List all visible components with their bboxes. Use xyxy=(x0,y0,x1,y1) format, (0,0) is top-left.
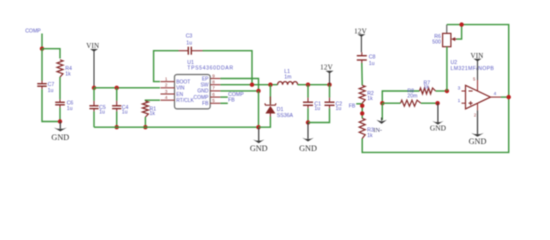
svg-text:VIN: VIN xyxy=(176,86,185,92)
svg-text:TPS54360DDAR: TPS54360DDAR xyxy=(187,66,233,72)
capacitor C2 1u xyxy=(329,98,331,103)
wire R1 top from RT/CLK pin xyxy=(145,99,160,102)
junction C4 bottom xyxy=(115,125,119,129)
svg-text:1: 1 xyxy=(458,98,461,104)
wire middle bottom rail xyxy=(94,126,259,128)
capacitor C4 1u xyxy=(116,101,118,106)
wire C4 top stub xyxy=(116,88,118,101)
svg-text:1k: 1k xyxy=(150,111,156,117)
junction C7/C6/GND xyxy=(58,119,62,123)
junction EP/GND xyxy=(256,89,260,93)
svg-text:SS36A: SS36A xyxy=(277,113,294,119)
wire R8 to op-amp pin 1 xyxy=(421,102,438,104)
svg-text:GND: GND xyxy=(51,133,69,142)
wire BOOT to C3 left xyxy=(154,51,179,82)
svg-text:GND: GND xyxy=(250,144,268,153)
svg-text:BOOT: BOOT xyxy=(176,79,190,85)
junction R7/R6 xyxy=(445,89,449,93)
svg-text:1u: 1u xyxy=(186,41,192,47)
resistor R3 1k xyxy=(359,118,365,138)
junction VIN/C5/rail xyxy=(92,86,96,90)
wire FB stub at pin 5 xyxy=(220,102,227,104)
svg-text:GND: GND xyxy=(469,137,487,146)
wire COMP stub at pin 6 xyxy=(220,96,227,98)
wire C6 to GND junction xyxy=(59,108,61,122)
svg-text:C8: C8 xyxy=(369,54,376,60)
junction R1 bottom xyxy=(143,125,147,129)
svg-text:500: 500 xyxy=(432,39,441,45)
pin 3 EN of U1 xyxy=(161,93,175,95)
svg-text:1k: 1k xyxy=(424,85,430,91)
junction bottom rail / GND xyxy=(256,125,260,129)
svg-text:COMP: COMP xyxy=(25,28,41,34)
wire R7 to op-amp pin 3 xyxy=(436,90,447,92)
wire R8 row left xyxy=(382,102,400,104)
svg-text:1u: 1u xyxy=(99,110,105,116)
ground GND (output) xyxy=(307,123,309,139)
wire EP to corner xyxy=(220,79,258,91)
wire C4 to bottom rail xyxy=(116,111,118,127)
pin 8 SW of U1 xyxy=(210,84,220,86)
potentiometer R6 500 xyxy=(446,25,448,34)
wire C3 right to SW node xyxy=(203,51,253,85)
ground GND (left block) xyxy=(59,122,61,129)
wire R1 to bottom rail xyxy=(144,117,146,127)
svg-text:IN-: IN- xyxy=(373,127,382,134)
wire GND pin to junction xyxy=(220,90,258,92)
svg-text:20m: 20m xyxy=(407,93,417,99)
op-amp U2 LM321MF/NOPB xyxy=(462,90,466,92)
junction C1/C2 bottom xyxy=(306,120,310,124)
svg-text:1k: 1k xyxy=(367,133,373,139)
svg-text:RT/CLK: RT/CLK xyxy=(176,98,194,104)
svg-text:3: 3 xyxy=(458,85,461,91)
wire R6 bottom to inverting node xyxy=(446,47,448,91)
pin 6 COMP of U1 xyxy=(210,96,220,98)
junction C2/12V xyxy=(327,83,331,87)
svg-text:12V: 12V xyxy=(320,63,333,71)
junction IN- / R8 xyxy=(380,101,384,105)
svg-text:C3: C3 xyxy=(186,34,193,40)
svg-text:EP: EP xyxy=(202,76,209,82)
junction output node xyxy=(507,95,511,99)
svg-text:1: 1 xyxy=(165,76,168,81)
junction SW/C3 xyxy=(250,83,254,87)
wire R6 top rail xyxy=(447,25,509,98)
svg-text:FB: FB xyxy=(349,103,356,109)
wire C1 top stub xyxy=(307,85,309,98)
inductor L1 1m xyxy=(278,82,298,85)
wire C8 to R2 xyxy=(361,63,363,85)
wire SW pin to L1 xyxy=(220,84,277,86)
svg-text:2: 2 xyxy=(165,83,168,88)
svg-text:4: 4 xyxy=(494,91,497,97)
resistor R8 20m xyxy=(401,100,421,106)
wire down to bottom rail xyxy=(258,91,260,127)
junction FB lower xyxy=(360,111,364,115)
svg-text:GND: GND xyxy=(197,89,209,95)
wire D1 cathode stub xyxy=(269,85,271,105)
capacitor C6 1u xyxy=(59,99,61,102)
resistor R2 1k xyxy=(359,85,365,103)
pin 9 EP of U1 xyxy=(210,78,220,80)
wire D1 anode to ground rail xyxy=(259,117,271,128)
svg-text:12V: 12V xyxy=(354,27,367,35)
svg-text:1u: 1u xyxy=(48,88,54,94)
wire COMP net down xyxy=(41,34,43,49)
resistor R7 1k xyxy=(420,88,436,94)
junction SW/D1 xyxy=(268,83,272,87)
pin 5 FB of U1 xyxy=(210,102,220,104)
svg-text:1u: 1u xyxy=(314,106,320,112)
wire C1 to GND junction xyxy=(307,108,309,122)
wire R3 to bottom return rail xyxy=(362,97,509,152)
resistor R1 1k xyxy=(142,101,148,117)
junction COMP/C7/R4 xyxy=(40,47,44,51)
svg-text:7: 7 xyxy=(212,86,215,91)
capacitor C3 1u (boot) xyxy=(179,50,189,52)
svg-text:LM321MF/NOPB: LM321MF/NOPB xyxy=(451,66,495,72)
svg-text:1k: 1k xyxy=(367,96,373,102)
svg-text:1u: 1u xyxy=(67,106,73,112)
svg-text:9: 9 xyxy=(212,73,215,78)
ground GND (under U1) xyxy=(258,127,260,140)
svg-text:FB: FB xyxy=(228,98,235,104)
svg-text:6: 6 xyxy=(212,92,215,97)
wire junction down to C7 xyxy=(41,49,43,81)
pin 4 RT/CLK of U1 xyxy=(161,99,175,101)
svg-text:3: 3 xyxy=(165,89,168,94)
junction R8/GND xyxy=(435,101,439,105)
svg-text:FB: FB xyxy=(202,101,209,107)
wire VIN rail to IC pin 2 xyxy=(94,87,160,89)
svg-text:1k: 1k xyxy=(65,71,71,77)
svg-text:1u: 1u xyxy=(122,110,128,116)
svg-text:1u: 1u xyxy=(369,61,375,67)
capacitor C8 1u xyxy=(361,52,363,55)
wire FB stub xyxy=(356,103,362,105)
ground GND (op-amp +in) xyxy=(437,103,439,122)
wire C2 bottom to junction xyxy=(308,108,330,122)
capacitor C7 1u xyxy=(41,81,43,84)
capacitor C5 1u xyxy=(93,101,95,106)
diode D1 SS36A xyxy=(269,97,271,105)
op IC body U1 TPS54360DDAR xyxy=(175,75,211,109)
wire R2 to R3 column xyxy=(361,103,363,118)
svg-text:5: 5 xyxy=(212,98,215,103)
svg-text:1m: 1m xyxy=(284,75,291,81)
junction C1 top xyxy=(306,83,310,87)
svg-text:4: 4 xyxy=(165,95,168,100)
pin 7 GND of U1 xyxy=(210,90,220,92)
svg-text:1u: 1u xyxy=(336,106,342,112)
svg-text:EN: EN xyxy=(176,92,183,98)
wire op-amp output xyxy=(501,96,509,98)
junction R6 wiper/top xyxy=(459,22,463,26)
svg-text:SW: SW xyxy=(200,83,208,89)
port IN- (current sense minus) xyxy=(381,103,383,120)
svg-text:COMP: COMP xyxy=(194,95,210,101)
pin 2 VIN of U1 xyxy=(161,87,175,89)
ground GND (op-amp supply) xyxy=(477,110,479,134)
wire junction to R4 branch xyxy=(42,49,60,59)
svg-text:GND: GND xyxy=(299,144,317,153)
wire C5 to bottom rail xyxy=(93,111,95,127)
pin 1 BOOT of U1 xyxy=(161,81,175,83)
wire C2 top stub xyxy=(329,85,331,98)
wire R4 to C6 xyxy=(59,77,61,99)
wire L1 to 12V output node xyxy=(298,84,330,86)
svg-text:8: 8 xyxy=(212,80,215,85)
wire C7 to bottom corner xyxy=(42,89,60,121)
capacitor C1 1u xyxy=(307,98,309,103)
svg-text:GND: GND xyxy=(430,124,447,133)
junction FB upper xyxy=(360,104,364,108)
wire C5 top stub xyxy=(93,88,95,101)
wire divider to R7 row xyxy=(382,91,419,103)
resistor R4 1k xyxy=(57,60,63,77)
junction C4 top xyxy=(115,86,119,90)
